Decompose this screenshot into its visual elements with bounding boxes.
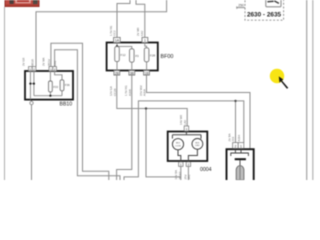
svg-text:1: 1 xyxy=(240,144,242,148)
svg-text:0004: 0004 xyxy=(200,167,212,173)
top pin 1A xyxy=(114,37,121,42)
svg-text:F12: F12 xyxy=(120,53,126,57)
cursor arrow xyxy=(279,76,289,88)
svg-text:8A1: 8A1 xyxy=(187,174,191,179)
wire BF00 pin 3B down-left exit xyxy=(117,75,132,180)
junction dot F12 top xyxy=(116,45,118,47)
wire A top to BF00 pin 1A xyxy=(117,0,130,37)
svg-text:2V MA: 2V MA xyxy=(41,57,45,66)
svg-text:LA0: LA0 xyxy=(183,120,187,125)
wire BF00 pin 2B to 0004 top xyxy=(117,75,187,126)
page left border xyxy=(4,7,6,180)
svg-text:CC2: CC2 xyxy=(113,30,117,36)
svg-text:LU1B: LU1B xyxy=(175,145,181,147)
svg-text:KA2: KA2 xyxy=(140,30,144,36)
connector circle below BB10 xyxy=(30,101,33,104)
top pins right pair xyxy=(49,67,53,71)
internal wires xyxy=(30,71,62,100)
fuse F33 xyxy=(49,81,53,92)
svg-text:8B1B: 8B1B xyxy=(30,59,34,66)
wire bus y11.5 xyxy=(36,0,167,67)
wire BB10 R1 down exit xyxy=(51,43,109,180)
top pin xyxy=(184,126,189,131)
svg-text:F3: F3 xyxy=(135,54,139,58)
wire B top to BF00 pin 1 xyxy=(136,0,145,37)
svg-text:BF00: BF00 xyxy=(161,54,174,60)
motor circle right xyxy=(192,139,203,150)
top pin 1 xyxy=(142,37,148,42)
rotated wire labels xyxy=(21,25,241,179)
svg-text:A394: A394 xyxy=(237,135,241,142)
junction dots xyxy=(145,107,147,109)
svg-text:2: 2 xyxy=(234,144,236,148)
page right border outer xyxy=(312,0,314,180)
svg-text:2630 - 2635: 2630 - 2635 xyxy=(247,11,282,18)
wire BB10 bottom exit xyxy=(31,100,33,102)
internal wires xyxy=(117,43,147,71)
bottom pins xyxy=(114,71,120,76)
internal symbol xyxy=(231,148,249,165)
svg-text:3B: 3B xyxy=(130,71,134,75)
fuse F28 xyxy=(144,48,149,62)
wire BB10 R2 down exit xyxy=(55,50,120,180)
bottom pins xyxy=(179,162,183,167)
svg-text:1: 1 xyxy=(144,39,146,43)
fuse F3 xyxy=(130,49,135,62)
svg-text:F28: F28 xyxy=(150,54,156,58)
wire branch down x146 xyxy=(146,109,181,177)
svg-text:1A: 1A xyxy=(115,39,120,43)
svg-text:F33: F33 xyxy=(53,85,58,89)
svg-text:KA2: KA2 xyxy=(53,60,57,66)
internal wires xyxy=(172,132,201,162)
picture icon xyxy=(266,0,281,7)
page right border inner xyxy=(306,0,308,180)
svg-text:7CW2: 7CW2 xyxy=(178,171,182,179)
svg-text:250: 250 xyxy=(238,4,244,8)
cursor highlight xyxy=(270,69,284,83)
svg-text:8B1V: 8B1V xyxy=(47,59,51,66)
wire stub to ref box xyxy=(237,7,245,9)
top pins left pair xyxy=(29,67,33,71)
fuse F12 xyxy=(115,47,120,62)
wire glow pin2 drop xyxy=(235,101,237,143)
svg-text:2V GR: 2V GR xyxy=(21,58,25,66)
motor circle left xyxy=(172,139,183,150)
svg-text:1B: 1B xyxy=(145,71,149,75)
red logo top-left xyxy=(5,0,39,7)
teardrop xyxy=(236,165,244,180)
svg-text:BB10: BB10 xyxy=(60,102,73,108)
wire glow plug net xyxy=(124,101,244,180)
svg-text:2B: 2B xyxy=(115,71,119,75)
fuse F36 xyxy=(60,80,64,91)
svg-text:A30B: A30B xyxy=(128,89,132,96)
svg-text:F36: F36 xyxy=(65,83,70,87)
pins xyxy=(233,143,239,149)
wire BF00 pin 1B to glow plug box xyxy=(147,75,251,149)
svg-text:A30A: A30A xyxy=(143,89,147,96)
svg-text:CC2B: CC2B xyxy=(113,88,117,96)
wire 0004 bottom pins xyxy=(180,167,182,181)
svg-text:219: 219 xyxy=(231,136,235,141)
